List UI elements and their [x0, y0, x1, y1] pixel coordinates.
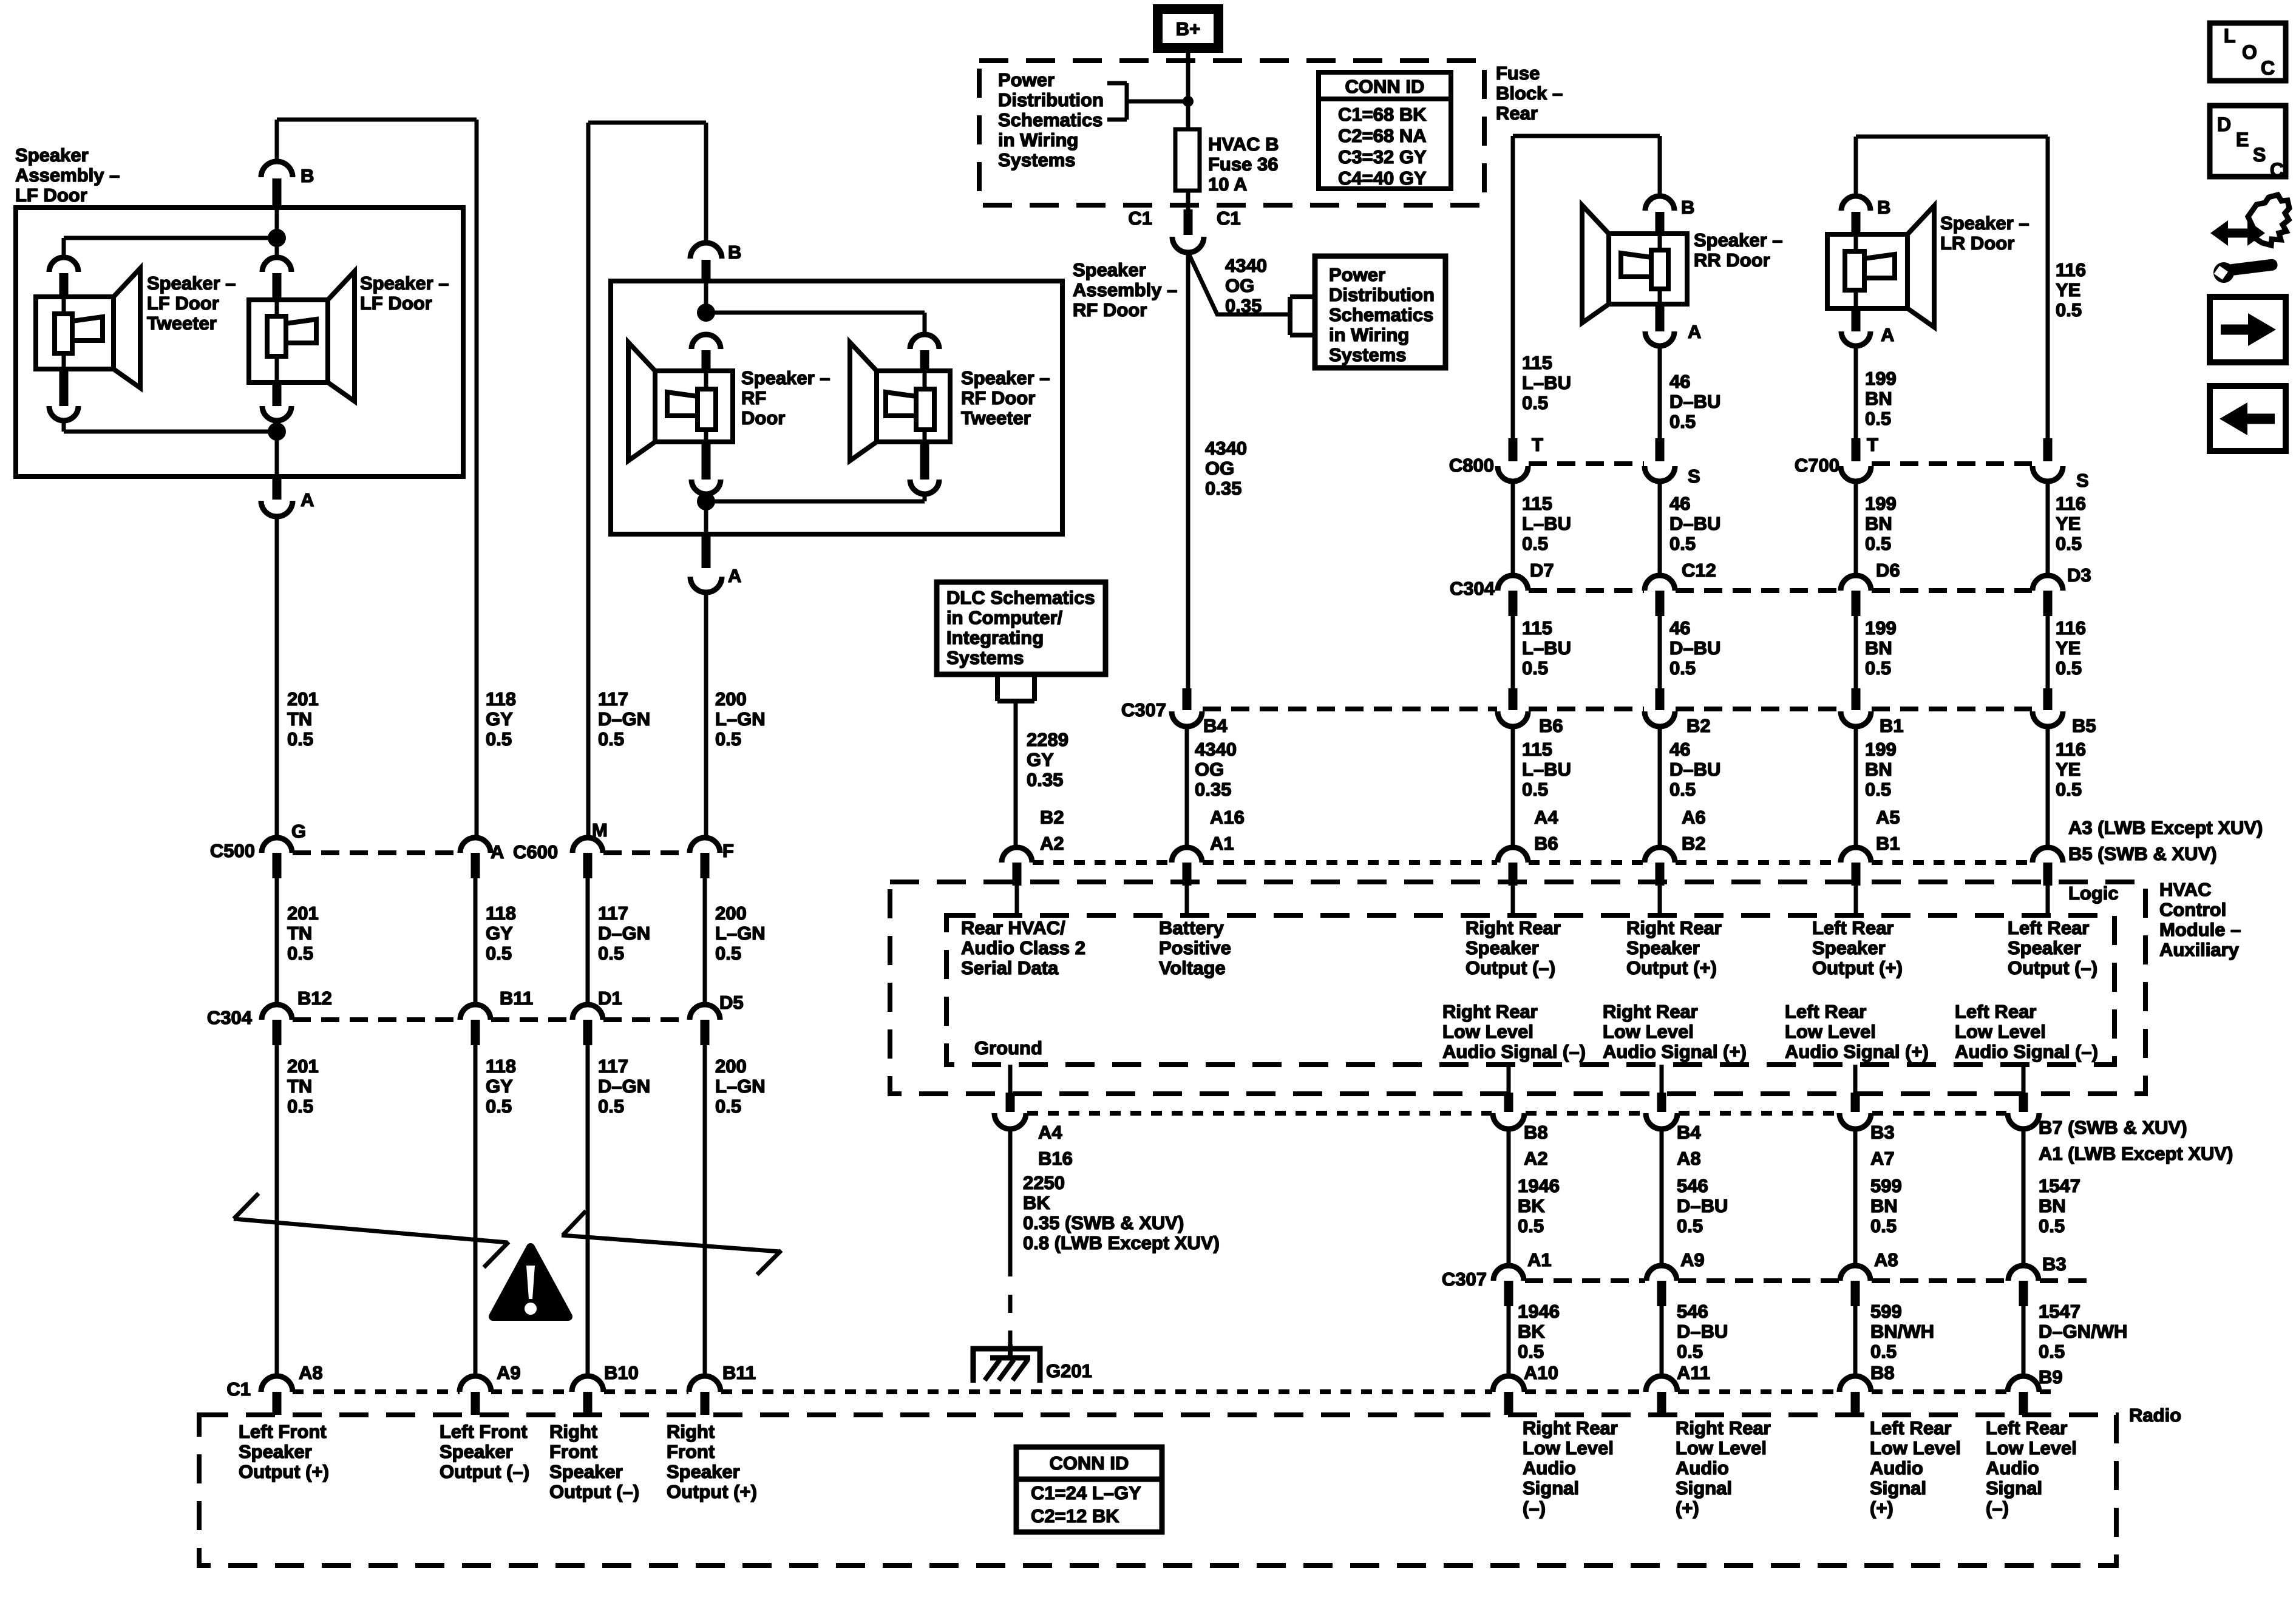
svg-text:0.5: 0.5 — [287, 1096, 313, 1117]
svg-text:G: G — [291, 821, 306, 842]
svg-text:0.5: 0.5 — [287, 943, 313, 964]
icon back arrow box — [2210, 386, 2286, 451]
svg-text:Speaker –: Speaker – — [741, 367, 830, 388]
svg-text:Audio Signal (–): Audio Signal (–) — [1442, 1041, 1586, 1062]
svg-text:A16: A16 — [1210, 807, 1245, 828]
label 199 BN 0.5 block D — [1865, 739, 1897, 800]
wire 200 L-GN segment 3 — [703, 1045, 707, 1377]
wire 4340 OG main — [1186, 253, 1190, 690]
svg-text:in Wiring: in Wiring — [1329, 324, 1409, 345]
ground G201 — [973, 1344, 1092, 1383]
svg-text:Low Level: Low Level — [1986, 1437, 2077, 1459]
label 46 D-BU 0.5 block A — [1669, 371, 1720, 432]
icon DESC box — [2210, 106, 2286, 181]
svg-text:C1=24 L–GY: C1=24 L–GY — [1031, 1482, 1141, 1503]
wire 200 L-GN segment 1 — [704, 592, 708, 838]
svg-text:CONN ID: CONN ID — [1050, 1453, 1129, 1474]
svg-text:200: 200 — [715, 903, 747, 924]
svg-text:0.5: 0.5 — [1865, 657, 1891, 679]
svg-text:0.35: 0.35 — [1205, 478, 1241, 499]
svg-text:RF: RF — [741, 387, 766, 408]
svg-text:BN: BN — [1865, 637, 1892, 659]
wire LF speaker column — [275, 238, 279, 257]
label B4 4340 OG 0.35 — [1195, 739, 1237, 800]
svg-text:0.5: 0.5 — [1669, 657, 1696, 679]
svg-text:B4: B4 — [1203, 715, 1228, 736]
svg-text:115: 115 — [1522, 617, 1552, 639]
svg-text:Tweeter: Tweeter — [147, 313, 217, 334]
svg-text:YE: YE — [2056, 279, 2080, 300]
wire rail to tweeter top — [64, 238, 277, 257]
svg-text:Left Rear: Left Rear — [1785, 1001, 1866, 1022]
svg-text:BN: BN — [1865, 759, 1892, 780]
svg-text:0.5: 0.5 — [2056, 779, 2082, 800]
label 115 L-BU 0.5 block C — [1522, 617, 1571, 679]
fuse HVAC B Fuse 36 10A — [1175, 129, 1200, 191]
connector B RR speaker — [1660, 136, 1694, 218]
label 117 D-GN 0.5 block1 — [598, 688, 650, 750]
svg-text:199: 199 — [1865, 617, 1897, 639]
svg-text:Low Level: Low Level — [1785, 1021, 1876, 1042]
wire 115 L-BU segment 2 — [1511, 481, 1515, 576]
svg-text:Power: Power — [1329, 264, 1385, 285]
label 116 YE 0.5 block B — [2056, 493, 2086, 554]
label 118 GY 0.5 block1 — [486, 688, 516, 750]
svg-text:Audio: Audio — [1986, 1457, 2039, 1479]
svg-text:Speaker –: Speaker – — [1694, 229, 1783, 251]
svg-text:2289: 2289 — [1027, 729, 1068, 750]
svg-text:L–BU: L–BU — [1522, 372, 1571, 393]
svg-text:C307: C307 — [1121, 699, 1166, 720]
svg-text:L–BU: L–BU — [1522, 637, 1571, 659]
wire branch to power distribution — [1189, 255, 1290, 314]
svg-text:C1=68 BK: C1=68 BK — [1338, 104, 1427, 125]
svg-text:1547: 1547 — [2039, 1175, 2080, 1196]
svg-text:1946: 1946 — [1518, 1175, 1560, 1196]
svg-text:0.5: 0.5 — [2039, 1215, 2065, 1236]
svg-text:Left Front: Left Front — [239, 1421, 327, 1442]
label Right Rear Low Level Audio Signal plus radio — [1676, 1417, 1771, 1519]
svg-text:OG: OG — [1205, 458, 1234, 479]
wire 4340 OG segment 3 — [1185, 727, 1189, 849]
label Speaker - LF Door — [360, 273, 449, 314]
svg-text:(–): (–) — [1523, 1497, 1546, 1519]
svg-text:A8: A8 — [1874, 1249, 1898, 1270]
svg-text:Block –: Block – — [1496, 83, 1563, 104]
svg-text:C1: C1 — [1128, 208, 1152, 229]
svg-text:A1: A1 — [1527, 1249, 1552, 1270]
label 200 L-GN 0.5 block3 — [715, 1056, 766, 1117]
svg-text:Tweeter: Tweeter — [961, 407, 1031, 429]
svg-text:0.5: 0.5 — [1865, 779, 1891, 800]
label Speaker Assembly - LF Door — [15, 144, 120, 206]
connector row C307 bottom — [1442, 1249, 2094, 1306]
svg-text:Output (–): Output (–) — [2008, 957, 2097, 978]
label 117 D-GN 0.5 block3 — [598, 1056, 650, 1117]
svg-text:D–GN: D–GN — [598, 923, 650, 944]
speaker assembly RF Door box — [611, 281, 1062, 534]
svg-text:Control: Control — [2159, 899, 2226, 920]
svg-text:0.35: 0.35 — [1027, 769, 1063, 790]
svg-text:D1: D1 — [598, 988, 622, 1009]
svg-text:Audio Signal (+): Audio Signal (+) — [1603, 1041, 1747, 1062]
svg-text:S: S — [2076, 470, 2089, 491]
svg-text:Low Level: Low Level — [1442, 1021, 1533, 1042]
svg-text:B: B — [728, 242, 741, 263]
wire 115 L-BU segment 4 — [1511, 727, 1515, 849]
node junction bottom RF — [697, 492, 715, 510]
wire to RF box bottom — [704, 494, 708, 534]
icon jump arrow with wrench — [2210, 195, 2289, 283]
svg-text:201: 201 — [287, 1056, 319, 1077]
label 199 BN 0.5 block C — [1865, 617, 1897, 679]
label 201 TN 0.5 block3 — [287, 1056, 319, 1117]
svg-text:116: 116 — [2056, 493, 2086, 514]
svg-text:BK: BK — [1518, 1321, 1545, 1342]
svg-text:Distribution: Distribution — [998, 89, 1104, 110]
connector row C304 right — [1450, 560, 2091, 616]
svg-text:A10: A10 — [1524, 1362, 1558, 1383]
svg-text:0.5: 0.5 — [2039, 1341, 2065, 1362]
svg-text:Right Rear: Right Rear — [1442, 1001, 1538, 1022]
label 546 D-BU 0.5 seg2 — [1677, 1301, 1728, 1362]
svg-text:Right Rear: Right Rear — [1523, 1417, 1618, 1439]
connector B LF assembly — [261, 161, 314, 205]
label Radio — [2129, 1405, 2181, 1426]
svg-text:B2: B2 — [1040, 807, 1064, 828]
svg-text:0.5: 0.5 — [598, 728, 624, 750]
connector row HVAC module top — [1002, 847, 2063, 915]
svg-text:C304: C304 — [207, 1007, 253, 1028]
connector row HVAC module bottom — [994, 1065, 2039, 1129]
label Left Rear Speaker Output plus — [1812, 917, 1903, 978]
svg-text:C2=12 BK: C2=12 BK — [1031, 1505, 1119, 1527]
svg-text:L–BU: L–BU — [1522, 513, 1571, 534]
svg-text:B10: B10 — [604, 1362, 639, 1383]
svg-text:546: 546 — [1677, 1301, 1708, 1322]
label 201 TN 0.5 block2 — [287, 903, 319, 964]
svg-text:1946: 1946 — [1518, 1301, 1560, 1322]
svg-text:Voltage: Voltage — [1159, 957, 1226, 978]
svg-text:B: B — [1681, 197, 1694, 218]
svg-text:0.8 (LWB Except XUV): 0.8 (LWB Except XUV) — [1023, 1232, 1220, 1253]
svg-text:Speaker: Speaker — [1073, 259, 1146, 280]
svg-text:116: 116 — [2056, 739, 2086, 760]
svg-text:C: C — [2261, 57, 2275, 79]
speaker LR Door — [1827, 196, 1934, 346]
svg-text:0.5: 0.5 — [1677, 1341, 1703, 1362]
svg-text:0.5: 0.5 — [2056, 657, 2082, 679]
svg-text:C2=68 NA: C2=68 NA — [1338, 125, 1427, 146]
svg-text:BN: BN — [1865, 513, 1892, 534]
label 546 D-BU 0.5 seg1 — [1677, 1175, 1728, 1236]
wire 599 BN-WH seg2 — [1853, 1306, 1858, 1377]
speaker assembly LF Door box — [16, 208, 463, 476]
svg-text:200: 200 — [715, 688, 747, 710]
svg-text:TN: TN — [287, 923, 312, 944]
connector A LF assembly — [261, 476, 314, 517]
label Left Front Speaker Output plus — [239, 1421, 329, 1482]
wire tweeter bottom rail — [64, 421, 277, 432]
svg-text:Audio Class 2: Audio Class 2 — [961, 937, 1085, 958]
svg-text:O: O — [2242, 41, 2257, 63]
svg-text:0.5: 0.5 — [486, 943, 512, 964]
svg-text:B5: B5 — [2072, 715, 2096, 736]
svg-text:0.5: 0.5 — [287, 728, 313, 750]
label Speaker - RR Door — [1694, 229, 1783, 271]
svg-text:0.5: 0.5 — [1870, 1341, 1897, 1362]
pin labels B3 A7 — [1870, 1122, 1895, 1169]
label Left Rear Low Level Audio Signal minus — [1955, 1001, 2098, 1062]
svg-text:E: E — [2236, 129, 2249, 151]
svg-text:B3: B3 — [2042, 1253, 2067, 1275]
svg-text:Low Level: Low Level — [1955, 1021, 2046, 1042]
label Left Rear Speaker Output minus — [2008, 917, 2097, 978]
label Left Front Speaker Output minus — [440, 1421, 529, 1482]
svg-text:0.5: 0.5 — [1870, 1215, 1897, 1236]
svg-text:B6: B6 — [1539, 715, 1563, 736]
svg-text:Output (–): Output (–) — [1466, 957, 1555, 978]
pin labels B4 A8 — [1677, 1122, 1701, 1169]
svg-text:B2: B2 — [1686, 715, 1711, 736]
svg-text:Left Rear: Left Rear — [1955, 1001, 2036, 1022]
svg-text:Left Front: Left Front — [440, 1421, 528, 1442]
wire RR loop rail — [1513, 136, 1660, 446]
pin labels A6 B2 — [1682, 807, 1706, 854]
wire 1946 BK seg2 — [1507, 1306, 1511, 1377]
connector row C307 — [1121, 688, 2096, 736]
svg-text:C304: C304 — [1450, 578, 1495, 599]
svg-text:46: 46 — [1669, 371, 1690, 392]
svg-text:HVAC: HVAC — [2159, 879, 2212, 900]
svg-text:Speaker –: Speaker – — [1940, 212, 2029, 234]
svg-text:Speaker: Speaker — [667, 1461, 740, 1482]
label 4340 OG 0.35 upper — [1225, 255, 1267, 316]
wire LF B loop to 118 GY — [277, 120, 477, 838]
svg-text:A2: A2 — [1040, 833, 1064, 854]
svg-text:Output (+): Output (+) — [1812, 957, 1903, 978]
svg-text:Speaker: Speaker — [15, 144, 89, 166]
svg-text:Low Level: Low Level — [1523, 1437, 1614, 1459]
label Power Distribution Schematics (fuse block) — [998, 69, 1104, 171]
wire 116 YE segment 3 — [2046, 616, 2050, 690]
svg-text:BN: BN — [2039, 1195, 2066, 1216]
svg-text:D–BU: D–BU — [1669, 759, 1720, 780]
wire 199 BN segment 2 — [1854, 481, 1858, 576]
node junction bottom LF — [268, 422, 286, 441]
svg-text:0.5: 0.5 — [1865, 533, 1891, 554]
pin labels A3 B5 LWB SWB — [2068, 817, 2263, 864]
svg-text:Left Rear: Left Rear — [1812, 917, 1894, 938]
bracket DLC output — [997, 674, 1034, 701]
label 1547 D-GN-WH 0.5 seg2 — [2039, 1301, 2127, 1362]
label 116 YE 0.5 block D — [2056, 739, 2086, 800]
wire rail to RF tweeter — [706, 313, 925, 334]
svg-text:B7 (SWB & XUV): B7 (SWB & XUV) — [2039, 1117, 2187, 1138]
label Right Rear Speaker Output minus — [1466, 917, 1561, 978]
svg-text:199: 199 — [1865, 368, 1897, 389]
svg-text:Audio Signal (+): Audio Signal (+) — [1785, 1041, 1929, 1062]
svg-text:Power: Power — [998, 69, 1055, 90]
pin labels A5 B1 — [1876, 807, 1900, 854]
wire 116 YE segment 2 — [2046, 481, 2050, 576]
label Speaker Assembly - RF Door — [1073, 259, 1177, 320]
svg-text:in Computer/: in Computer/ — [946, 607, 1063, 628]
svg-text:LF Door: LF Door — [15, 185, 87, 206]
svg-text:A1 (LWB Except XUV): A1 (LWB Except XUV) — [2039, 1143, 2233, 1164]
label Right Front Speaker Output minus — [549, 1421, 639, 1502]
svg-text:T: T — [1867, 434, 1878, 455]
svg-text:0.5: 0.5 — [1669, 779, 1696, 800]
svg-text:YE: YE — [2056, 759, 2080, 780]
svg-text:C1: C1 — [226, 1378, 251, 1400]
label 200 L-GN 0.5 block1 — [715, 688, 766, 750]
svg-text:546: 546 — [1677, 1175, 1708, 1196]
svg-text:1547: 1547 — [2039, 1301, 2080, 1322]
svg-text:Low Level: Low Level — [1676, 1437, 1767, 1459]
label Left Rear Low Level Audio Signal plus radio — [1870, 1417, 1961, 1519]
svg-text:Rear HVAC/: Rear HVAC/ — [961, 917, 1065, 938]
svg-text:A5: A5 — [1876, 807, 1900, 828]
svg-text:0.5: 0.5 — [1518, 1215, 1544, 1236]
svg-text:C12: C12 — [1682, 560, 1716, 581]
svg-text:200: 200 — [715, 1056, 747, 1077]
svg-text:Rear: Rear — [1496, 103, 1538, 124]
svg-text:GY: GY — [1027, 749, 1054, 770]
label 1547 BN 0.5 seg1 — [2039, 1175, 2080, 1236]
svg-text:117: 117 — [598, 903, 628, 924]
svg-text:Signal: Signal — [1523, 1477, 1579, 1499]
label Right Rear Low Level Audio Signal minus radio — [1523, 1417, 1618, 1519]
svg-text:2250: 2250 — [1023, 1172, 1065, 1193]
label 115 L-BU 0.5 block D — [1522, 739, 1571, 800]
svg-text:199: 199 — [1865, 739, 1897, 760]
bracket power distribution right — [1290, 297, 1315, 335]
wire B+ to fuse — [1186, 52, 1190, 131]
label Speaker - RF Door Tweeter — [961, 367, 1050, 429]
label Right Front Speaker Output plus — [667, 1421, 757, 1502]
label Ground — [974, 1037, 1042, 1059]
label Left Rear Low Level Audio Signal plus — [1785, 1001, 1929, 1062]
label 599 BN-WH 0.5 seg2 — [1870, 1301, 1934, 1362]
svg-text:Right: Right — [667, 1421, 715, 1442]
wire 599 BN seg1 — [1853, 1129, 1858, 1267]
label 1946 BK 0.5 seg2 — [1518, 1301, 1560, 1362]
svg-text:Positive: Positive — [1159, 937, 1231, 958]
svg-text:YE: YE — [2056, 513, 2080, 534]
warning triangle — [493, 1247, 568, 1317]
svg-text:Audio: Audio — [1676, 1457, 1729, 1479]
svg-text:BN/WH: BN/WH — [1870, 1321, 1934, 1342]
svg-text:A: A — [1881, 324, 1894, 345]
svg-text:46: 46 — [1669, 617, 1690, 639]
label Speaker - RF Door — [741, 367, 830, 429]
label 115 L-BU 0.5 block B — [1522, 493, 1571, 554]
svg-text:S: S — [1688, 466, 1700, 487]
svg-text:115: 115 — [1522, 352, 1552, 373]
label Right Rear Low Level Audio Signal minus — [1442, 1001, 1586, 1062]
svg-text:B4: B4 — [1677, 1122, 1701, 1143]
connector A LR speaker — [1881, 324, 1894, 345]
svg-text:0.5: 0.5 — [1669, 411, 1696, 432]
svg-text:10 A: 10 A — [1208, 174, 1247, 195]
svg-text:Output (+): Output (+) — [239, 1461, 329, 1482]
svg-text:F: F — [722, 840, 734, 861]
connector B RF assembly — [690, 242, 741, 281]
svg-text:116: 116 — [2056, 259, 2086, 280]
svg-text:Signal: Signal — [1676, 1477, 1732, 1499]
svg-text:Right Rear: Right Rear — [1466, 917, 1561, 938]
label 46 D-BU 0.5 block B — [1669, 493, 1720, 554]
svg-text:0.5: 0.5 — [715, 728, 741, 750]
svg-text:201: 201 — [287, 903, 319, 924]
svg-text:Speaker: Speaker — [1812, 937, 1886, 958]
svg-text:Systems: Systems — [946, 647, 1024, 668]
svg-text:0.5: 0.5 — [1677, 1215, 1703, 1236]
svg-text:B11: B11 — [722, 1362, 756, 1383]
svg-text:Signal: Signal — [1986, 1477, 2042, 1499]
svg-text:117: 117 — [598, 688, 628, 710]
svg-text:GY: GY — [486, 708, 513, 730]
speaker LF Door — [249, 257, 355, 421]
svg-text:C: C — [2270, 159, 2284, 181]
svg-text:RF Door: RF Door — [1073, 299, 1147, 320]
svg-text:Output (+): Output (+) — [1626, 957, 1717, 978]
svg-text:0.5: 0.5 — [1669, 533, 1696, 554]
svg-text:CONN ID: CONN ID — [1345, 76, 1425, 97]
svg-text:BK: BK — [1023, 1192, 1050, 1213]
connector A RF assembly — [690, 534, 741, 592]
svg-text:Distribution: Distribution — [1329, 284, 1435, 305]
svg-text:D7: D7 — [1530, 560, 1554, 581]
label 116 YE 0.5 block C — [2056, 617, 2086, 679]
svg-text:D5: D5 — [719, 992, 744, 1013]
svg-text:BN: BN — [1865, 388, 1892, 409]
svg-text:C700: C700 — [1795, 455, 1839, 476]
svg-text:B+: B+ — [1176, 18, 1201, 39]
svg-text:GY: GY — [486, 1076, 513, 1097]
svg-text:0.5: 0.5 — [1522, 533, 1548, 554]
wire 1946 BK seg1 — [1507, 1129, 1511, 1267]
svg-text:4340: 4340 — [1205, 438, 1247, 459]
svg-text:B6: B6 — [1534, 833, 1558, 854]
svg-text:A8: A8 — [1677, 1148, 1701, 1169]
svg-text:A: A — [1688, 321, 1701, 342]
svg-text:Systems: Systems — [998, 149, 1076, 171]
svg-text:Module –: Module – — [2159, 919, 2241, 940]
svg-text:Assembly –: Assembly – — [15, 164, 120, 186]
label 117 D-GN 0.5 block2 — [598, 903, 650, 964]
svg-text:0.5: 0.5 — [2056, 533, 2082, 554]
label 118 GY 0.5 block2 — [486, 903, 516, 964]
svg-text:A7: A7 — [1870, 1148, 1895, 1169]
svg-text:A: A — [491, 841, 504, 863]
svg-text:0.5: 0.5 — [1522, 779, 1548, 800]
wire RF B loop to 117 D-GN — [588, 123, 706, 838]
icon LOC box — [2210, 23, 2286, 81]
svg-text:D–GN: D–GN — [598, 708, 650, 730]
svg-text:A6: A6 — [1682, 807, 1706, 828]
svg-text:D3: D3 — [2067, 564, 2091, 586]
pin labels B7 A1 SWB LWB — [2039, 1117, 2233, 1164]
connector row C1 radio — [226, 1362, 2062, 1415]
svg-text:A9: A9 — [1680, 1249, 1705, 1270]
svg-text:Systems: Systems — [1329, 344, 1407, 365]
svg-text:L–GN: L–GN — [715, 923, 766, 944]
svg-text:Speaker: Speaker — [2008, 937, 2081, 958]
wire RF tweeter bottom rail — [706, 494, 925, 501]
svg-text:4340: 4340 — [1225, 255, 1267, 276]
